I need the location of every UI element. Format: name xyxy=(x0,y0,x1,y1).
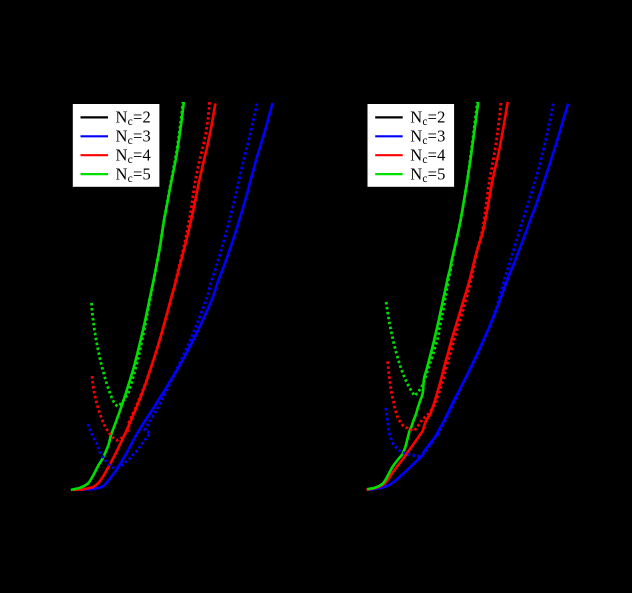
left panel solid blue curve Nc=3 xyxy=(75,103,273,490)
left panel dotted green curve xyxy=(92,102,183,406)
left panel dotted blue curve xyxy=(88,102,257,469)
svg-text:Nc=2: Nc=2 xyxy=(116,108,151,129)
svg-text:Nc=3: Nc=3 xyxy=(116,127,151,148)
left panel solid red curve Nc=4 xyxy=(73,103,215,490)
right legend line Nc=5 xyxy=(375,173,403,175)
right panel dotted red curve xyxy=(388,102,501,431)
left legend box xyxy=(72,104,160,188)
right panel solid red curve Nc=4 xyxy=(367,102,508,490)
right legend line Nc=2 xyxy=(375,116,403,118)
svg-text:Nc=4: Nc=4 xyxy=(116,146,151,167)
right panel dotted green curve xyxy=(386,102,477,396)
left legend line Nc=3 xyxy=(81,135,109,137)
left legend line Nc=4 xyxy=(81,154,109,156)
svg-text:Nc=4: Nc=4 xyxy=(410,146,445,167)
right panel solid blue curve Nc=3 xyxy=(368,104,568,490)
right legend line Nc=4 xyxy=(375,154,403,156)
right panel dotted blue curve xyxy=(386,102,554,456)
left legend line Nc=2 xyxy=(81,116,109,118)
svg-text:Nc=5: Nc=5 xyxy=(116,164,151,185)
left legend line Nc=5 xyxy=(81,173,109,175)
left panel solid green curve Nc=5 xyxy=(71,102,184,490)
right panel solid green curve Nc=5 xyxy=(367,102,478,489)
right legend box xyxy=(367,104,455,188)
right legend line Nc=3 xyxy=(375,135,403,137)
svg-text:Nc=2: Nc=2 xyxy=(410,108,445,129)
svg-text:Nc=3: Nc=3 xyxy=(410,127,445,148)
left panel dotted red curve xyxy=(92,102,209,440)
svg-text:Nc=5: Nc=5 xyxy=(410,164,445,185)
